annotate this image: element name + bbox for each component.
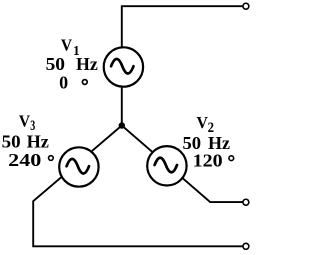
- svg-text:V: V: [61, 36, 72, 55]
- svg-text:50: 50: [46, 54, 66, 74]
- svg-text:V: V: [19, 112, 30, 131]
- svg-text:Hz: Hz: [27, 131, 50, 151]
- svg-text:V: V: [197, 113, 208, 132]
- svg-text:240: 240: [8, 150, 42, 170]
- svg-text:Hz: Hz: [76, 54, 98, 74]
- svg-text:0: 0: [59, 72, 68, 92]
- svg-text:120: 120: [193, 151, 223, 171]
- svg-text:50: 50: [2, 132, 21, 152]
